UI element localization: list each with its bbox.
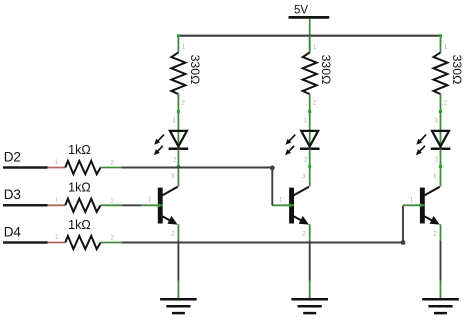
node LED3-Q3 junction (439, 165, 442, 168)
resistor R1 330&#937; (171, 45, 201, 107)
wire R5 pin1 red leg (48, 204, 66, 206)
LED LED2 (285, 118, 319, 164)
svg-text:D3: D3 (4, 187, 21, 202)
node D2 wire bendpoint (270, 166, 275, 171)
wire Q1 emitter to ground (177, 241, 179, 281)
svg-text:1kΩ: 1kΩ (68, 143, 91, 157)
wire Q2 emitter to ground (309, 241, 311, 281)
resistor R5 1k&#937; (55, 181, 115, 212)
ground GND2 (291, 299, 328, 313)
transistor Q3 NPN (403, 174, 440, 238)
wire LED2 cathode to Q2 collector (309, 149, 311, 187)
wire R6 pin2 green leg (101, 242, 122, 244)
LED LED3 (416, 118, 450, 164)
svg-text:1kΩ: 1kΩ (68, 218, 91, 232)
wire D4 stub (3, 241, 48, 244)
node R3-LED3 junction (439, 110, 442, 113)
node R2-LED2 junction (308, 110, 311, 113)
wire D4 horizontal run (122, 242, 403, 244)
wire R1 pin2 to LED1 anode (177, 94, 179, 149)
node R1-LED1 junction (177, 110, 180, 113)
resistor R2 330&#937; (303, 45, 333, 107)
ground GND3 (422, 299, 459, 313)
transistor Q2 NPN (272, 174, 309, 238)
node rail left endpoint (177, 34, 180, 37)
wire Q2 emitter leg (309, 224, 311, 240)
resistor R3 330&#937; (434, 45, 464, 107)
wire R6 pin1 red leg (48, 242, 66, 244)
wire R2 pin2 to LED2 anode (309, 94, 311, 149)
wire R1 pin1 leg (177, 36, 179, 53)
svg-text:330Ω: 330Ω (188, 55, 202, 85)
wire Q1 emitter leg (177, 224, 179, 240)
wire Q3 emitter to ground (440, 241, 442, 281)
svg-text:D4: D4 (4, 224, 22, 239)
wire R3 pin1 leg (440, 36, 442, 53)
wire ground leg 3 (440, 281, 442, 299)
node D4 wire bendpoint (401, 240, 406, 245)
svg-text:1kΩ: 1kΩ (68, 181, 91, 195)
node LED2-Q2 junction (308, 165, 311, 168)
wire LED3 cathode to Q3 collector (440, 149, 442, 187)
wire D2 stub (3, 166, 48, 169)
svg-text:D2: D2 (4, 149, 21, 164)
resistor R4 1k&#937; (55, 143, 115, 174)
node LED1-Q1 junction (177, 165, 180, 168)
wire D3 stub (3, 204, 48, 207)
svg-text:330Ω: 330Ω (319, 55, 333, 85)
wire 5V drop to node VCC (309, 19, 311, 53)
wire R2 pin1 leg (309, 36, 311, 53)
node rail right endpoint (439, 34, 442, 37)
wire R4 pin2 green leg (101, 167, 122, 169)
svg-text:330Ω: 330Ω (450, 55, 464, 85)
wire ground leg 2 (309, 281, 311, 299)
wire 5V power rail (178, 35, 440, 37)
power symbol 5V (289, 5, 330, 18)
wire D2 horizontal run (122, 167, 273, 169)
transistor Q1 NPN (141, 174, 178, 238)
wire D3 run to Q1 base (122, 204, 141, 206)
LED LED1 (154, 118, 188, 164)
svg-text:5V: 5V (294, 5, 308, 17)
wire R5 pin2 green leg (101, 204, 122, 206)
wire LED1 cathode to Q1 collector (177, 149, 179, 187)
wire D2 riser to Q2 base (271, 168, 273, 205)
wire Q3 emitter leg (440, 224, 442, 240)
wire R3 pin2 to LED3 anode (440, 94, 442, 149)
wire D4 riser to Q3 base (402, 206, 404, 243)
ground GND1 (160, 299, 197, 313)
resistor R6 1k&#937; (55, 218, 115, 249)
wire R4 pin1 red leg (48, 167, 66, 169)
wire ground leg 1 (177, 281, 179, 299)
